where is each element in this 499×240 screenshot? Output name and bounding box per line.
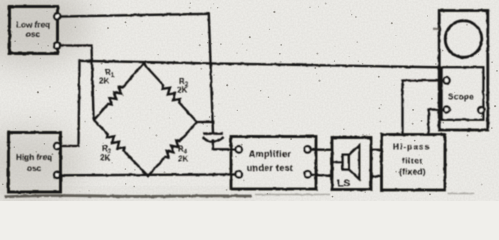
wire: low freq osc bottom output to bridge left corner: [61, 46, 94, 120]
wire: low freq osc top output to vertical drop: [61, 14, 209, 17]
svg-text:Hi-pass: Hi-pass: [393, 142, 430, 152]
scope CRT screen circle: [445, 21, 482, 58]
terminal: high freq osc top: [54, 143, 60, 149]
loudspeaker symbol cone: [349, 145, 360, 179]
capacitor C1 bottom plate (curved): [203, 138, 223, 142]
resistor R4 (bridge bottom-right arm): [148, 122, 197, 176]
resistor R3 (bridge bottom-left arm): [94, 120, 148, 176]
box: amplifier under test: [231, 137, 316, 190]
svg-text:2K: 2K: [177, 86, 187, 95]
resistor R2 (bridge top-right arm): [144, 64, 198, 123]
svg-text:Amplifier: Amplifier: [249, 149, 292, 159]
scope front panel: [442, 67, 484, 120]
terminal: scope bottom right: [478, 107, 484, 113]
wire: LS to hi-pass filter top: [371, 149, 382, 151]
svg-text:2K: 2K: [99, 77, 109, 86]
capacitor C1 top plate: [204, 132, 221, 135]
wire: bridge right corner to capacitor node: [197, 121, 213, 123]
resistor R1 (bridge top-left arm): [94, 64, 144, 121]
svg-text:Scope: Scope: [448, 93, 474, 102]
svg-text:under test: under test: [247, 163, 294, 173]
wire: hi-pass filter to scope lower terminal: [429, 110, 444, 135]
wire: capacitor to amplifier top input: [213, 141, 235, 150]
terminal: amplifier input bottom: [236, 171, 242, 177]
svg-text:(fixed): (fixed): [399, 167, 426, 177]
terminal: amplifier input top: [236, 146, 242, 152]
wire: high freq osc top output up to bridge top wire: [61, 61, 80, 146]
scan artifact: bottom smudge line: [5, 29, 474, 197]
terminal: scope input top: [444, 78, 450, 84]
box: hi-pass filter: [382, 135, 446, 191]
loudspeaker symbol driver: [343, 155, 349, 170]
wire: amplifier output bottom to LS: [311, 175, 332, 176]
svg-text:2K: 2K: [100, 154, 110, 163]
box: scope outer case: [439, 11, 488, 131]
wire: bridge top corner horizontal rail to scope: [80, 61, 440, 68]
terminal: scope input bottom: [444, 107, 450, 113]
svg-text:High freq: High freq: [16, 153, 52, 162]
svg-text:filter: filter: [402, 156, 423, 166]
svg-text:2K: 2K: [178, 155, 188, 164]
terminal: high freq osc bottom: [54, 172, 60, 178]
wire: vertical from top wire down to capacitor / bridge right node: [209, 14, 213, 133]
wire: hi-pass filter to scope upper terminal: [403, 81, 444, 135]
wire: bottom rail from high freq osc to amplifier input: [61, 173, 236, 176]
svg-text:Low freq: Low freq: [16, 21, 50, 30]
svg-text:osc: osc: [27, 164, 42, 173]
box: high freq oscillator: [9, 133, 61, 193]
terminal: low freq osc bottom: [54, 42, 60, 48]
terminal: amplifier output bottom: [304, 171, 310, 177]
wire: LS to hi-pass filter bottom: [371, 175, 382, 177]
wire: stub into speaker driver: [333, 161, 343, 163]
box: low freq oscillator: [10, 7, 58, 54]
svg-text:osc: osc: [26, 30, 41, 39]
box: LS loudspeaker: [332, 138, 371, 190]
svg-text:LS: LS: [337, 178, 350, 190]
terminal: amplifier output top: [304, 146, 310, 152]
terminal: low freq osc top: [54, 13, 60, 19]
wire: amplifier output top to LS: [311, 148, 332, 151]
